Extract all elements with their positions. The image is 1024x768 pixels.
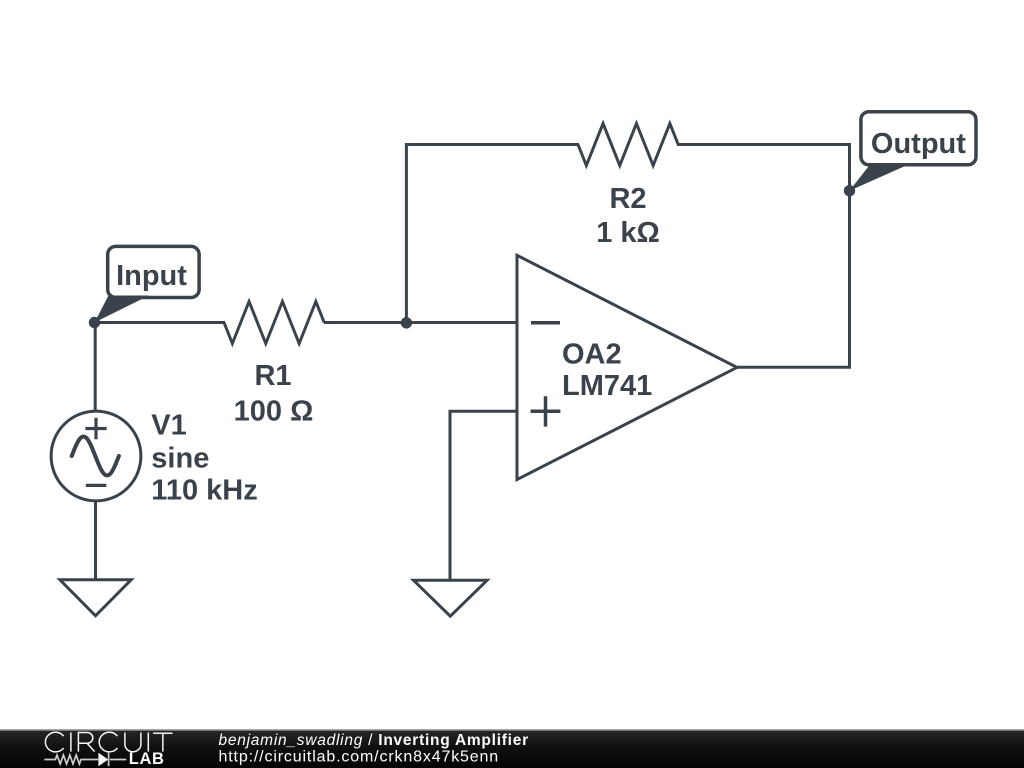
- wire: input node to R1: [95, 321, 226, 324]
- CircuitLab logo CIRCUIT: [45, 732, 172, 752]
- svg-text:100 Ω: 100 Ω: [234, 395, 314, 427]
- node: output junction dot: [844, 185, 855, 196]
- svg-text:Output: Output: [871, 128, 966, 160]
- footer bar: [0, 729, 1024, 768]
- wire: input node down to V1 top: [94, 323, 97, 414]
- svg-text:OA2: OA2: [562, 338, 622, 370]
- svg-text:benjamin_swadling / Inverting: benjamin_swadling / Inverting Amplifier: [219, 732, 529, 749]
- V1 sine symbol: [72, 437, 119, 476]
- svg-text:R1: R1: [254, 360, 291, 392]
- op-amp OA2: [517, 255, 737, 479]
- node: inverting input junction dot: [401, 317, 412, 328]
- wire: feedback junction up to R2 left: [406, 145, 579, 325]
- op-amp non-inverting input plus sign: [531, 396, 561, 426]
- svg-text:R2: R2: [609, 183, 646, 215]
- resistor R2: [578, 124, 678, 166]
- wire: non-inverting input to ground: [450, 411, 517, 580]
- wire: R1 to op-amp inverting input: [324, 321, 517, 324]
- svg-text:V1: V1: [151, 409, 186, 441]
- callout Output: [850, 112, 977, 191]
- op-amp inverting input minus sign: [531, 321, 560, 325]
- svg-text:110 kHz: 110 kHz: [151, 474, 257, 506]
- voltage source V1: [51, 411, 141, 501]
- wire: V1 bottom to ground: [94, 499, 97, 580]
- ground for op-amp non-inverting input: [414, 580, 488, 616]
- V1 plus sign: [85, 418, 106, 440]
- CircuitLab logo zigzag and diode: [44, 753, 126, 766]
- callout Input: [95, 246, 200, 322]
- wire: op-amp output to output node: [737, 366, 851, 369]
- ground for V1: [60, 580, 131, 616]
- wire: output vertical down: [848, 189, 851, 367]
- wire: R2 right to right corner: [677, 145, 850, 193]
- node: input junction dot: [89, 317, 100, 328]
- svg-text:LM741: LM741: [562, 370, 652, 402]
- svg-text:http://circuitlab.com/crkn8x47: http://circuitlab.com/crkn8x47k5enn: [219, 749, 500, 766]
- svg-text:1 kΩ: 1 kΩ: [596, 217, 660, 249]
- resistor R1: [224, 302, 324, 344]
- svg-text:LAB: LAB: [129, 750, 165, 768]
- V1 minus sign: [86, 484, 107, 487]
- svg-text:Input: Input: [116, 260, 187, 292]
- svg-text:sine: sine: [151, 443, 209, 475]
